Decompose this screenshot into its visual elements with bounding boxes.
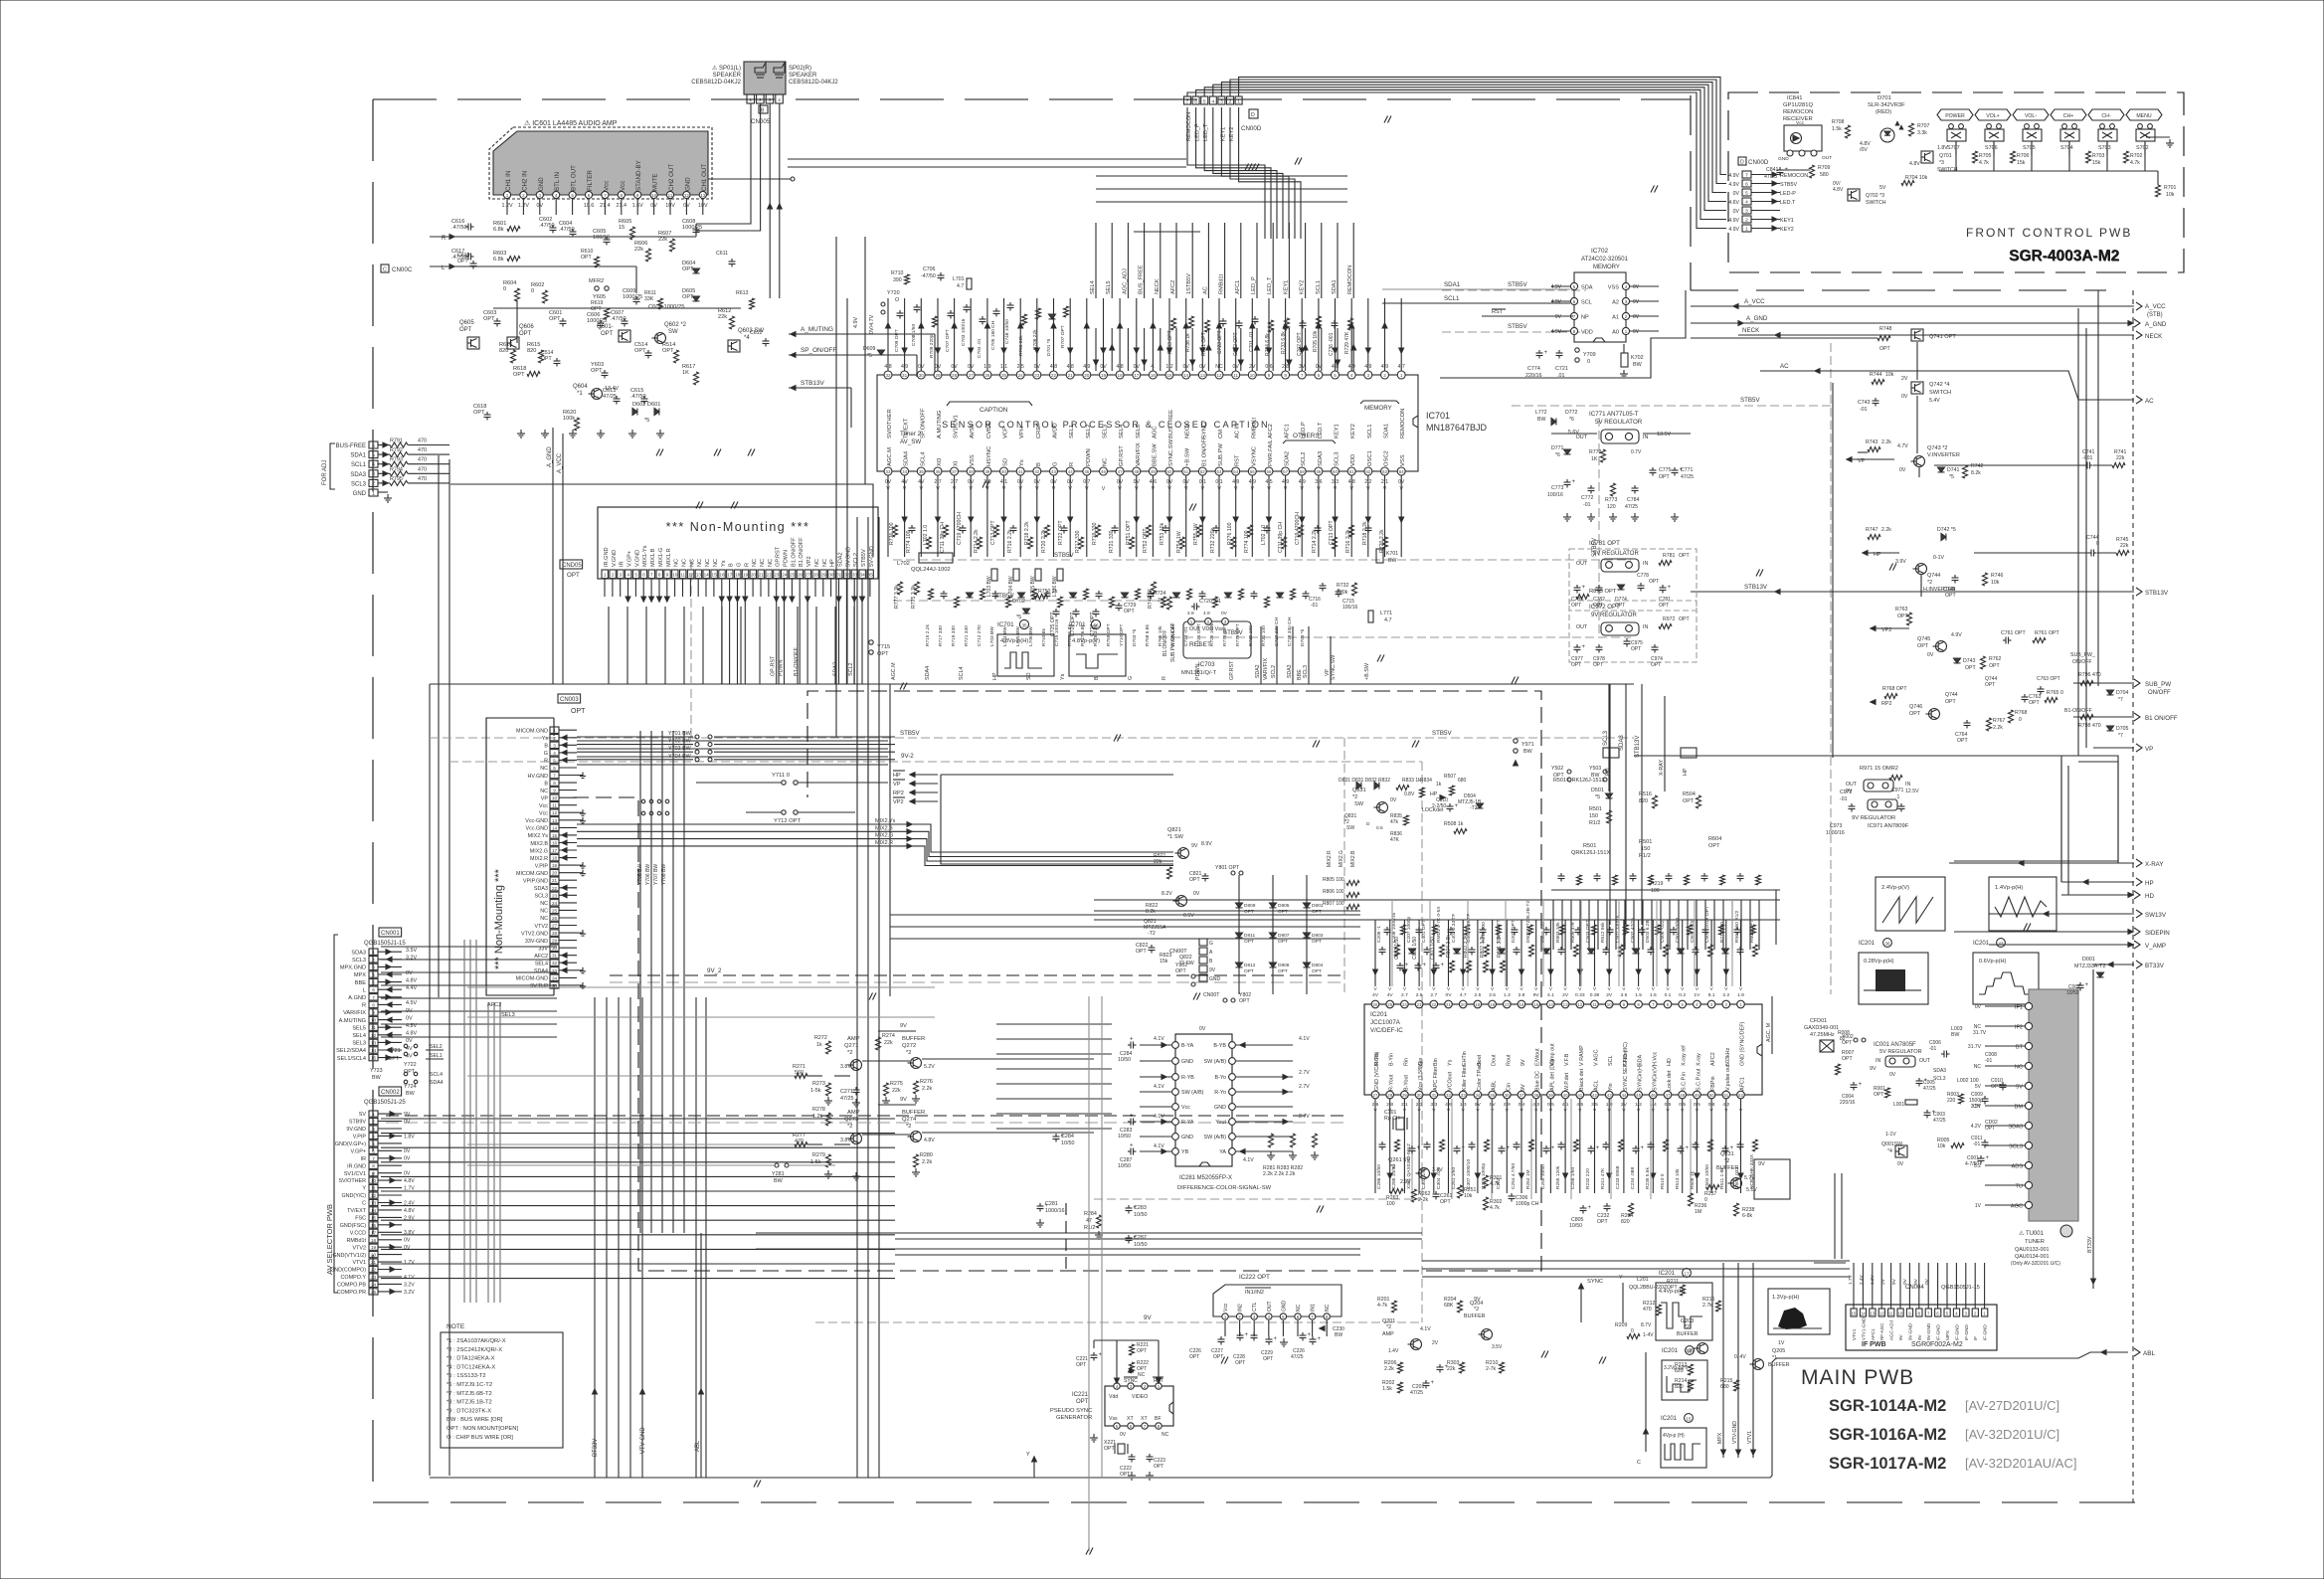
capacitor C601 <box>562 318 564 321</box>
svg-text:R732: R732 <box>1337 583 1349 589</box>
IC701 bottom stub forest <box>887 475 889 557</box>
resistor R772 1K <box>1601 449 1606 462</box>
svg-text:NC: NC <box>540 901 548 907</box>
bus dashed vertical x=695 <box>690 560 692 738</box>
svg-text:2.5: 2.5 <box>1416 992 1423 998</box>
svg-text:29: 29 <box>552 939 558 944</box>
svg-text:-01: -01 <box>1311 603 1318 609</box>
svg-text:Vcc-GND: Vcc-GND <box>525 818 548 824</box>
svg-text:FILTER: FILTER <box>587 170 594 191</box>
svg-text:R761: R761 <box>2035 630 2048 636</box>
svg-text:4.9V: 4.9V <box>1728 218 1739 224</box>
svg-text:8.2k: 8.2k <box>1971 470 1981 476</box>
svg-text:OPT: OPT <box>1649 579 1659 585</box>
svg-text:AC IN: AC IN <box>1235 424 1241 439</box>
wire: audio bus SP_ON/OFF <box>789 354 917 356</box>
svg-text:1000/25: 1000/25 <box>682 225 702 231</box>
svg-text:V: V <box>1534 986 1538 991</box>
svg-text:C972: C972 <box>1840 789 1853 795</box>
IC701 bottom pin circles <box>884 467 892 475</box>
svg-text:2.4V: 2.4V <box>404 1200 415 1206</box>
svg-text:SCL1: SCL1 <box>1367 424 1373 439</box>
wire: vertical bundle x 644-688 mid page <box>639 731 641 1233</box>
svg-text:36: 36 <box>1885 942 1890 947</box>
svg-text:220/16: 220/16 <box>1840 1100 1856 1106</box>
svg-text:4: 4 <box>1350 373 1353 378</box>
svg-text:0V: 0V <box>406 1008 413 1014</box>
svg-text:V_AMP: V_AMP <box>2145 943 2166 950</box>
svg-text:C722 OPT: C722 OPT <box>1233 332 1239 356</box>
svg-text:Color TPack: Color TPack <box>1477 1061 1483 1091</box>
svg-text:470: 470 <box>2092 723 2101 729</box>
svg-text:D: D <box>1366 821 1370 827</box>
svg-text:VP2: VP2 <box>806 556 812 567</box>
non-mounting box1 pin row <box>602 570 608 579</box>
svg-text:V: V <box>1622 986 1626 991</box>
svg-text:OPT: OPT <box>1945 699 1956 705</box>
svg-text:3: 3 <box>372 965 375 969</box>
svg-text:AMP: AMP <box>847 1110 860 1116</box>
svg-text:-01: -01 <box>1973 1141 1980 1147</box>
resistor R605 <box>630 227 635 240</box>
svg-text:SV/OTHER: SV/OTHER <box>887 409 893 439</box>
gray verticals x=1095,1108 <box>1088 996 1090 1551</box>
svg-text:C234 .088: C234 .088 <box>1630 1167 1636 1189</box>
svg-text:4: 4 <box>627 573 630 578</box>
svg-text:OPT: OPT <box>541 356 552 362</box>
svg-text:+: + <box>1859 1082 1863 1088</box>
svg-text:6: 6 <box>1194 99 1197 105</box>
svg-text:Q702 *3: Q702 *3 <box>1866 193 1884 199</box>
svg-text:BW: BW <box>372 1075 382 1081</box>
svg-text:0V: 0V <box>1975 1004 1982 1010</box>
bus dashed STB5V short near IC702 y=292 <box>1442 289 1586 291</box>
svg-text:+: + <box>1417 1145 1421 1151</box>
svg-text:L001: L001 <box>1893 1102 1904 1108</box>
svg-text:9: 9 <box>372 1010 375 1015</box>
svg-text:V: V <box>1491 986 1495 991</box>
svg-text:20: 20 <box>751 573 757 578</box>
front control CN00D connector <box>1738 157 1746 165</box>
svg-text:4.4V: 4.4V <box>406 985 417 991</box>
svg-text:*2: *2 <box>1474 1307 1479 1313</box>
svg-text:82: 82 <box>1840 1036 1846 1042</box>
svg-text:C708 1/50: C708 1/50 <box>911 324 917 346</box>
svg-text:GND(VTV1/2): GND(VTV1/2) <box>332 1253 366 1259</box>
wire: heavy corridor y=487 <box>450 484 873 557</box>
svg-text:1: 1 <box>1237 99 1240 105</box>
svg-text:1V: 1V <box>1778 1340 1785 1346</box>
svg-text:SP_ON/OFF: SP_ON/OFF <box>801 347 836 354</box>
svg-text:4Vp-p (H): 4Vp-p (H) <box>1663 1433 1685 1439</box>
svg-text:IC201: IC201 <box>1662 1348 1679 1354</box>
svg-text:NC: NC <box>760 559 766 567</box>
svg-text:OPT: OPT <box>662 348 674 354</box>
svg-text:33: 33 <box>552 968 558 973</box>
svg-text:D602 D601: D602 D601 <box>632 402 660 408</box>
svg-text:R701 OPT: R701 OPT <box>1201 332 1207 356</box>
svg-text:TV/EXT: TV/EXT <box>347 1208 367 1214</box>
svg-text:KEY2: KEY2 <box>1350 424 1356 439</box>
svg-text:19: 19 <box>743 573 749 578</box>
svg-text:1.2k: 1.2k <box>812 1114 822 1120</box>
svg-text:0. 4V: 0. 4V <box>1734 1354 1746 1360</box>
svg-text:15: 15 <box>371 1056 377 1061</box>
svg-text:1.5: 1.5 <box>1650 992 1657 998</box>
svg-text:D831 D831 D832 R832: D831 D831 D832 R832 <box>1339 778 1390 784</box>
svg-text:0: 0 <box>503 286 506 292</box>
svg-text:46: 46 <box>1101 469 1106 474</box>
svg-text:X-ray: X-ray <box>1696 1053 1701 1066</box>
svg-text:5: 5 <box>1946 1312 1949 1316</box>
svg-text:R-Yout: R-Yout <box>1389 1074 1395 1091</box>
resistors R301 R302 4.7k <box>1484 1175 1489 1188</box>
svg-text:*1: *1 <box>577 391 583 397</box>
svg-text:SEL5: SEL5 <box>352 1025 366 1031</box>
svg-text:R742: R742 <box>1971 463 1984 469</box>
svg-text:1.5: 1.5 <box>1635 992 1642 998</box>
main PWB dashed border bottom edge <box>373 1501 2136 1503</box>
svg-text:C712 27D: C712 27D <box>977 624 983 646</box>
svg-text:25: 25 <box>552 908 558 913</box>
svg-text:FOR ADJ: FOR ADJ <box>322 460 328 485</box>
svg-text:NC: NC <box>1325 1304 1331 1312</box>
bus dashed STB5V y=742 <box>430 737 1634 739</box>
resistor R602 <box>543 290 548 303</box>
svg-text:28: 28 <box>813 573 819 578</box>
svg-text:31.7V: 31.7V <box>1968 1044 1982 1050</box>
svg-text:O : CHIP BUS WIRE [OR]: O : CHIP BUS WIRE [OR] <box>447 1435 513 1441</box>
svg-text:8.7V: 8.7V <box>1641 1322 1652 1328</box>
svg-text:C255 10/50: C255 10/50 <box>1540 1164 1546 1189</box>
box2 selected arrows <box>562 735 567 740</box>
svg-text:STB5V: STB5V <box>1508 323 1527 330</box>
Non-Mounting box 2 vertical <box>486 718 554 995</box>
svg-text:R706 22k: R706 22k <box>1018 335 1024 356</box>
C716 C715 caps <box>1322 583 1324 586</box>
svg-text:+: + <box>1462 1145 1466 1151</box>
svg-text:Rout: Rout <box>1506 1054 1512 1066</box>
svg-text:C612: C612 <box>750 330 763 336</box>
svg-text:CN00D: CN00D <box>1748 159 1769 166</box>
svg-text:4.8V: 4.8V <box>404 1178 415 1184</box>
svg-text:9V: 9V <box>1898 1333 1903 1340</box>
svg-text:34: 34 <box>860 573 866 578</box>
svg-text:D809: D809 <box>1244 903 1256 909</box>
svg-text:R748: R748 <box>1879 326 1892 332</box>
svg-text:SWITCH: SWITCH <box>1937 167 1958 173</box>
svg-text:4.9: 4.9 <box>1203 611 1210 616</box>
svg-text:16: 16 <box>719 573 725 578</box>
svg-text:OPT : NON MOUNT[OPEN]: OPT : NON MOUNT[OPEN] <box>447 1426 518 1432</box>
svg-text:9V: 9V <box>1533 992 1540 998</box>
svg-text:1STB5V: 1STB5V <box>1186 273 1192 294</box>
svg-text:NC: NC <box>674 559 680 567</box>
svg-text:68K: 68K <box>1444 1303 1454 1309</box>
svg-text:54: 54 <box>1233 469 1238 474</box>
svg-text:2.2k: 2.2k <box>1881 527 1891 533</box>
svg-text:OPT: OPT <box>1917 643 1929 649</box>
svg-text:CN00C: CN00C <box>392 266 413 273</box>
svg-text:C271: C271 <box>840 1089 853 1095</box>
svg-text:47/25: 47/25 <box>1410 1390 1423 1396</box>
svg-text:IN: IN <box>1643 624 1648 630</box>
C729 OPT cap <box>1118 603 1120 606</box>
svg-text:STAND-BY: STAND-BY <box>635 160 642 191</box>
svg-text:4.1V: 4.1V <box>1154 1084 1164 1090</box>
svg-text:4-7/50: 4-7/50 <box>1965 1161 1979 1167</box>
label C and Y verticals <box>1645 1352 1647 1452</box>
svg-text:BTL OUT: BTL OUT <box>571 165 578 191</box>
svg-text:4.1V: 4.1V <box>1154 1114 1164 1120</box>
svg-text:22k: 22k <box>884 1040 893 1046</box>
svg-text:2.2k: 2.2k <box>1384 1366 1394 1372</box>
svg-text:*2: *2 <box>1390 1164 1395 1170</box>
svg-text:8.2V: 8.2V <box>1162 891 1172 897</box>
svg-text:64: 64 <box>1399 469 1404 474</box>
svg-text:D811: D811 <box>1244 933 1255 939</box>
svg-text:R804 3.9k: R804 3.9k <box>1446 935 1452 958</box>
IF PWB box <box>1846 1305 1997 1350</box>
svg-text:VP: VP <box>541 796 549 802</box>
svg-text:21: 21 <box>759 573 765 578</box>
svg-text:3: 3 <box>372 1127 375 1132</box>
svg-text:C748 10/50: C748 10/50 <box>1004 319 1010 344</box>
svg-text:Q746: Q746 <box>1909 704 1922 710</box>
wire: bus trunk vertical v1 <box>438 455 440 997</box>
svg-text:R753 10k: R753 10k <box>1160 522 1165 545</box>
svg-text:*6: *6 <box>1569 417 1574 423</box>
svg-text:1.9: 1.9 <box>1737 992 1744 998</box>
svg-text:STB9V: STB9V <box>349 1120 366 1126</box>
svg-text:31: 31 <box>552 954 558 959</box>
svg-text:5: 5 <box>571 193 574 198</box>
svg-text:13: 13 <box>1870 1312 1875 1316</box>
svg-text:DIFFERENCE-COLOR-SIGNAL-SW: DIFFERENCE-COLOR-SIGNAL-SW <box>1177 1185 1272 1191</box>
svg-text:12: 12 <box>1879 1312 1884 1316</box>
non-mounting box1 pin stubs with arrows <box>604 579 606 597</box>
svg-text:BW: BW <box>1591 773 1599 779</box>
svg-text:BUS_FREE: BUS_FREE <box>1139 264 1145 294</box>
svg-text:SCL3: SCL3 <box>535 894 549 900</box>
resistor R617 <box>694 372 699 385</box>
svg-text:5V: 5V <box>1879 185 1886 191</box>
svg-text:SCL4: SCL4 <box>920 451 926 466</box>
resistor R612 <box>730 316 735 329</box>
svg-text:15: 15 <box>712 573 718 578</box>
svg-text:A1: A1 <box>1612 315 1619 321</box>
svg-text:R264 1M: R264 1M <box>1525 1170 1531 1189</box>
svg-text:OSC1: OSC1 <box>1367 450 1373 466</box>
svg-text:R767: R767 <box>1993 718 2006 724</box>
svg-text:Q205: Q205 <box>1772 1348 1785 1354</box>
svg-text:NC: NC <box>689 559 695 567</box>
transistor Q601 OPT <box>619 330 630 342</box>
svg-text:1K: 1K <box>1591 456 1598 462</box>
svg-text:Dout: Dout <box>1492 1054 1498 1066</box>
svg-text:Ys: Ys <box>542 736 549 742</box>
diode D771 <box>1564 449 1571 454</box>
svg-text:7: 7 <box>604 193 607 198</box>
svg-text:R: R <box>362 1003 366 1009</box>
svg-text:L701: L701 <box>953 276 965 282</box>
svg-text:5.2V: 5.2V <box>924 1064 935 1070</box>
svg-text:SYNC.SW: SYNC.SW <box>1331 654 1337 680</box>
component C748 10/50 <box>1009 302 1011 305</box>
svg-text:OTHERS: OTHERS <box>1293 433 1320 439</box>
svg-text:IN1/IN2: IN1/IN2 <box>1245 1290 1264 1296</box>
svg-text:22: 22 <box>1431 1002 1436 1007</box>
resistor R709 580 <box>1810 165 1815 178</box>
svg-text:NC: NC <box>697 559 703 567</box>
D702 diode <box>1023 609 1030 614</box>
diode D801 OPT <box>1304 903 1311 908</box>
svg-text:V.INVERTER: V.INVERTER <box>1927 452 1960 458</box>
svg-text:BW: BW <box>1537 417 1545 423</box>
resistor R271 560 <box>795 1074 807 1079</box>
svg-text:R708 22k: R708 22k <box>1032 329 1038 350</box>
svg-text:Q261 5V: Q261 5V <box>1388 1157 1410 1163</box>
component R709 220p <box>933 316 938 327</box>
svg-text:3.8V: 3.8V <box>840 1064 851 1070</box>
svg-text:3: 3 <box>539 193 542 198</box>
svg-text:C287: C287 <box>1134 1235 1147 1241</box>
svg-text:Vcc.GND: Vcc.GND <box>526 826 549 832</box>
speaker wires down <box>750 103 752 159</box>
svg-text:48: 48 <box>1680 1093 1685 1098</box>
svg-text:R710: R710 <box>891 270 904 276</box>
svg-text:VSS: VSS <box>1608 285 1619 291</box>
IC281 notch <box>1199 1162 1210 1166</box>
svg-text:IC703: IC703 <box>1198 661 1215 668</box>
svg-text:D: D <box>1740 160 1744 166</box>
diode D803 OPT <box>1304 933 1311 938</box>
svg-text:5V: 5V <box>2016 1084 2023 1090</box>
off-page arrows right edge: A_VCC <box>1691 305 2134 307</box>
svg-text:HP: HP <box>1683 768 1689 776</box>
svg-text:OPT: OPT <box>1945 593 1956 599</box>
svg-text:OPT: OPT <box>1909 711 1921 717</box>
svg-text:KEY2: KEY2 <box>1780 227 1794 233</box>
svg-text:9V: 9V <box>1870 1066 1877 1072</box>
svg-text:D701 *5: D701 *5 <box>1046 338 1052 356</box>
heavy wire: right area VP/HP bends <box>2078 762 2118 863</box>
svg-text:25: 25 <box>371 1290 377 1295</box>
svg-text:SCL3: SCL3 <box>351 481 367 487</box>
svg-text:SEL3: SEL3 <box>1103 425 1109 439</box>
svg-text:RF-AGC: RF-AGC <box>1879 1322 1884 1340</box>
svg-text:CH2 OUT: CH2 OUT <box>668 164 675 191</box>
svg-text:IC201: IC201 <box>1973 941 1990 947</box>
svg-text:16: 16 <box>1688 1349 1693 1354</box>
svg-text:Ys: Ys <box>1448 1059 1454 1066</box>
svg-text:C286 10/50: C286 10/50 <box>1376 1164 1382 1189</box>
svg-text:1K: 1K <box>682 370 689 376</box>
svg-text:R703 OPT: R703 OPT <box>1167 330 1173 354</box>
svg-text:5.6V: 5.6V <box>1568 430 1579 436</box>
svg-text:9V REGULATOR: 9V REGULATOR <box>1852 815 1895 821</box>
svg-text:SDA1: SDA1 <box>1332 279 1338 294</box>
svg-text:CN00D: CN00D <box>1241 125 1262 132</box>
svg-text:OPT: OPT <box>1842 1056 1853 1062</box>
svg-text:36: 36 <box>1505 1093 1510 1098</box>
svg-text:V: V <box>1666 986 1670 991</box>
resistor R606 <box>646 249 651 262</box>
svg-text:Q742 *4: Q742 *4 <box>1929 382 1950 388</box>
svg-text:OPT: OPT <box>1278 939 1288 945</box>
svg-text:21: 21 <box>1446 1002 1451 1007</box>
transistor Q744 H inverter <box>1916 564 1927 575</box>
svg-text:C307 1000/10: C307 1000/10 <box>1466 1159 1472 1189</box>
svg-text:15: 15 <box>1533 1002 1538 1007</box>
svg-text:4.8V: 4.8V <box>924 1138 935 1143</box>
component C514 OPT <box>556 358 558 361</box>
capacitor C608 <box>695 227 697 230</box>
transistor Q606 OPT <box>507 337 519 349</box>
svg-text:*6 : MTZJ9.1C-T2: *6 : MTZJ9.1C-T2 <box>447 1382 492 1388</box>
svg-text:V: V <box>1462 986 1466 991</box>
svg-text:R: R <box>1162 676 1167 680</box>
svg-text:24: 24 <box>782 573 788 578</box>
svg-text:1-4V: 1-4V <box>1643 1332 1654 1338</box>
svg-text:580: 580 <box>1820 172 1829 178</box>
svg-text:SDA4: SDA4 <box>925 666 931 680</box>
svg-text:ABL: ABL <box>1492 1081 1498 1091</box>
svg-text:5: 5 <box>634 573 637 578</box>
svg-text:1000/16: 1000/16 <box>1045 1208 1065 1214</box>
svg-text:OPT: OPT <box>1679 553 1690 559</box>
resistor R262 2.2k <box>1412 1189 1417 1202</box>
svg-text:KEY1: KEY1 <box>1335 424 1341 439</box>
svg-text:*6: *6 <box>1555 452 1560 458</box>
svg-text:OPT: OPT <box>1124 609 1135 614</box>
svg-text:+B.SW: +B.SW <box>1364 662 1370 680</box>
svg-text:KEY1: KEY1 <box>1283 280 1289 294</box>
svg-text:19: 19 <box>1475 1002 1480 1007</box>
svg-text:D704: D704 <box>2116 690 2129 696</box>
svg-text:35: 35 <box>868 573 874 578</box>
svg-text:8: 8 <box>658 573 661 578</box>
svg-text:OPT: OPT <box>1985 682 1995 688</box>
svg-text:1: 1 <box>1745 227 1748 233</box>
svg-text:41: 41 <box>1018 469 1023 474</box>
component R610 OPT <box>595 257 600 267</box>
svg-text:R507: R507 <box>1444 774 1456 780</box>
resistor R601 <box>507 227 520 232</box>
svg-text:A_GND: A_GND <box>2145 321 2167 328</box>
svg-text:SEL2: SEL2 <box>1086 425 1092 439</box>
svg-text:49: 49 <box>1151 469 1156 474</box>
bus dashed black 9V pair y=1122 <box>386 1115 1344 1117</box>
svg-text:R801 3.3k: R801 3.3k <box>1497 935 1503 958</box>
svg-text:V: V <box>1373 986 1377 991</box>
capacitor C763 OPT <box>2024 694 2026 697</box>
svg-text:S706: S706 <box>1985 145 1998 151</box>
svg-text:R724: R724 <box>1154 591 1166 597</box>
svg-text:Y502: Y502 <box>1551 766 1563 772</box>
svg-text:0.1: 0.1 <box>1665 992 1672 998</box>
svg-text:V.GND: V.GND <box>612 550 618 567</box>
svg-text:10: 10 <box>371 1018 377 1023</box>
RST NP wire <box>1482 315 1573 317</box>
svg-text:RP2: RP2 <box>1881 701 1892 707</box>
svg-text:Y: Y <box>1026 1452 1030 1458</box>
svg-text:R273: R273 <box>812 1081 825 1087</box>
svg-text:V: V <box>1739 986 1743 991</box>
svg-text:2.2k: 2.2k <box>922 1159 932 1165</box>
capacitor C615 <box>643 396 645 399</box>
svg-text:SEL4: SEL4 <box>352 1033 366 1039</box>
